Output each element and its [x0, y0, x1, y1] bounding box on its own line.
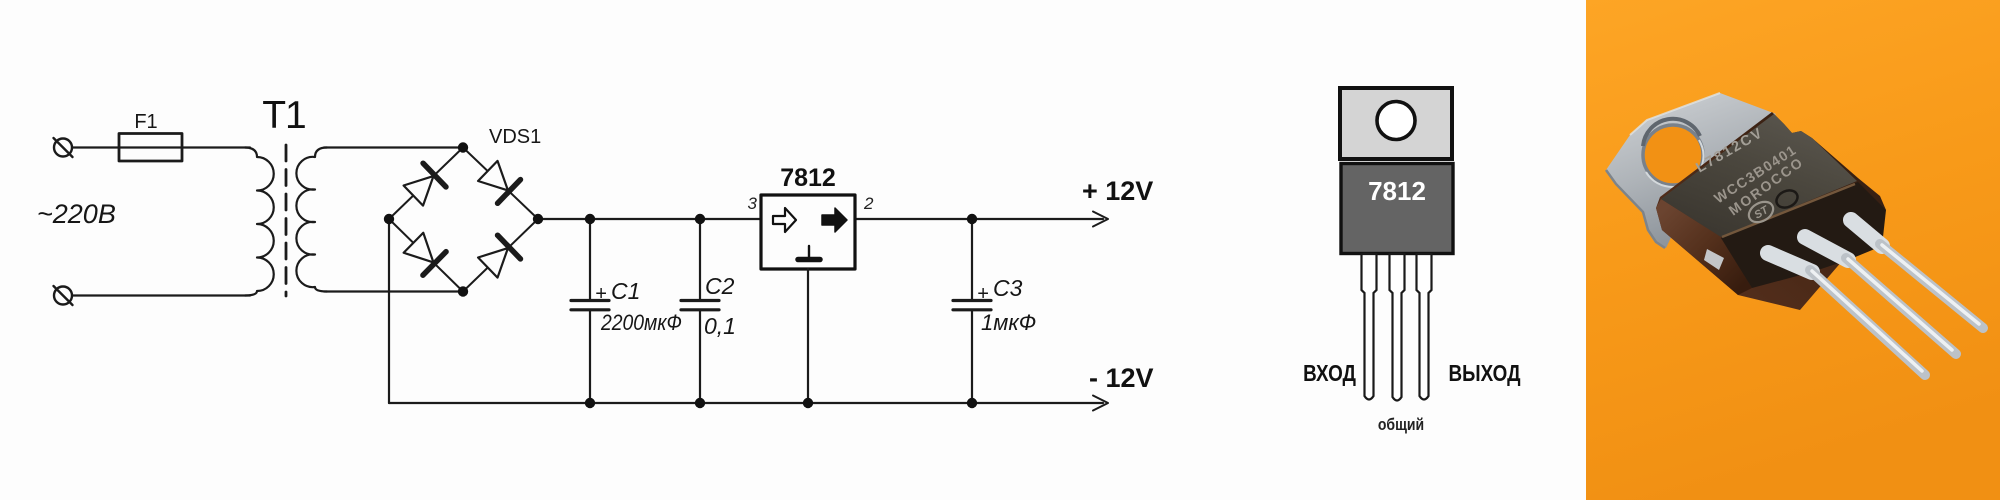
- diode VD4 (bottom-right arm): [476, 235, 520, 279]
- svg-text:C2: C2: [705, 273, 735, 299]
- svg-text:- 12V: - 12V: [1089, 363, 1154, 393]
- svg-text:T1: T1: [262, 94, 306, 137]
- node bridge top: [458, 142, 468, 152]
- wire bottom input to transformer: [72, 294, 250, 296]
- photo leg 1: [1768, 253, 1925, 375]
- photo metal tab: [1606, 93, 1776, 248]
- svg-text:1мкФ: 1мкФ: [981, 310, 1036, 335]
- capacitor C3 plates: [953, 299, 991, 302]
- mounting hole (drawing): [1377, 102, 1415, 140]
- svg-text:VDS1: VDS1: [489, 126, 541, 148]
- diode VD3 (bottom-left arm): [402, 231, 446, 275]
- pin 1 input leg: [1362, 254, 1377, 400]
- pin 2 common leg: [1390, 254, 1405, 401]
- wire plus rail (bridge to regulator): [538, 218, 761, 220]
- capacitor C2 plates: [681, 299, 719, 302]
- wire minus rail: [389, 402, 1103, 404]
- svg-text:7812: 7812: [780, 164, 836, 192]
- capacitor C2 wires: [699, 219, 701, 300]
- ground symbol inside box: [808, 246, 810, 258]
- svg-text:+ 12V: + 12V: [1082, 176, 1153, 206]
- transformer T1 primary winding: [245, 148, 274, 296]
- node regulator ground: [803, 398, 813, 408]
- capacitor C3 wires: [971, 219, 973, 300]
- photo body legs-side dark face: [1721, 182, 1886, 288]
- wire secondary top to bridge: [324, 146, 463, 148]
- wire plus rail (regulator to output): [855, 218, 1103, 220]
- transformer T1 secondary winding: [296, 148, 327, 292]
- photo tab top highlight: [1630, 93, 1720, 135]
- input arrow symbol (hollow): [773, 208, 796, 232]
- svg-text:C1: C1: [611, 278, 640, 304]
- node bridge right: [533, 214, 543, 224]
- photo leg 3: [1851, 220, 1983, 328]
- terminal X2 bottom input: [54, 286, 73, 305]
- svg-text:общий: общий: [1378, 416, 1424, 434]
- node C3 top: [967, 214, 977, 224]
- node C1 bottom: [585, 398, 595, 408]
- terminal X1 top input: [54, 138, 73, 157]
- pin 3 output leg: [1417, 254, 1432, 400]
- regulator U1 box 7812: [761, 195, 855, 269]
- photo body bottom brown face: [1656, 199, 1752, 295]
- svg-text:ВХОД: ВХОД: [1303, 361, 1356, 386]
- fuse F1: [119, 134, 182, 162]
- node C3 bottom: [967, 398, 977, 408]
- transformer T1 core: [285, 145, 288, 296]
- svg-text:7812: 7812: [1368, 176, 1426, 206]
- output arrow symbol (solid): [822, 208, 847, 232]
- svg-text:ВЫХОД: ВЫХОД: [1449, 361, 1521, 386]
- photo body ridge highlight: [1722, 184, 1855, 237]
- photo body text face: [1661, 114, 1857, 237]
- diode bridge VDS1 frame: [389, 148, 538, 292]
- wire top input to transformer: [72, 146, 250, 148]
- svg-text:+: +: [977, 283, 989, 305]
- photo tab hole: [1643, 125, 1703, 185]
- node C1 top: [585, 214, 595, 224]
- photo ejector pin mark: [1774, 187, 1801, 211]
- arrowhead plus rail: [1093, 212, 1108, 227]
- arrowhead minus rail: [1093, 396, 1108, 411]
- wire secondary bottom to bridge: [324, 290, 463, 292]
- svg-text:C3: C3: [993, 275, 1023, 301]
- diode VD1 (left-top arm): [402, 163, 446, 207]
- photo heatsink edge glint under body: [1704, 249, 1724, 270]
- node bridge left: [384, 214, 394, 224]
- svg-text:2200мкФ: 2200мкФ: [600, 311, 682, 335]
- svg-text:F1: F1: [134, 111, 157, 133]
- wire regulator ground: [807, 269, 809, 403]
- capacitor C1 wires: [589, 219, 591, 300]
- capacitor C1 plates: [571, 299, 609, 302]
- svg-text:+: +: [595, 283, 607, 305]
- photo tab lower edge shade: [1606, 170, 1665, 248]
- photo background: [1586, 0, 2000, 500]
- svg-text:3: 3: [748, 194, 758, 213]
- photo package body silhouette (side faces, brownish): [1656, 112, 1886, 310]
- svg-text:~220В: ~220В: [37, 199, 116, 229]
- junction dots: [384, 142, 977, 408]
- wire bridge left node down: [388, 219, 390, 403]
- package body (drawing): [1341, 164, 1453, 254]
- svg-text:0,1: 0,1: [704, 313, 736, 339]
- svg-text:2: 2: [863, 194, 874, 213]
- node bridge bottom: [458, 286, 468, 296]
- photo leg 2: [1805, 237, 1956, 354]
- photo ST logo: [1745, 198, 1777, 227]
- package tab (drawing): [1340, 88, 1452, 159]
- diode VD2 (top-right arm): [476, 159, 520, 203]
- node C2 top: [695, 214, 705, 224]
- node C2 bottom: [695, 398, 705, 408]
